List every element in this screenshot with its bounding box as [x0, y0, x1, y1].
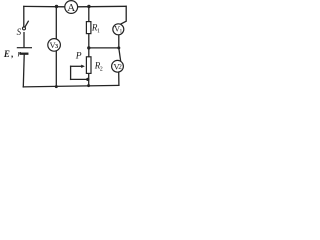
wire top rail right segment [78, 5, 126, 8]
node junction dot mid R1-R2 [87, 46, 90, 49]
svg-text:P: P [75, 51, 82, 61]
wire right branch top corner to V1 [120, 6, 126, 24]
wiper P arm horizontal [71, 65, 82, 67]
svg-text:2: 2 [100, 66, 103, 72]
wire V1 to V2 [119, 35, 121, 61]
svg-text:S: S [17, 27, 22, 37]
wire R1 to mid junction [88, 34, 90, 48]
svg-text:1: 1 [97, 28, 100, 34]
voltmeter V1 [113, 24, 124, 35]
wire battery to bottom rail [22, 55, 25, 87]
wire R2 to bottom rail [88, 73, 90, 85]
voltmeter V3 [48, 39, 61, 52]
wiper P arm vertical [70, 66, 72, 79]
svg-text:3: 3 [55, 44, 58, 50]
wire mid junction to R2 [88, 48, 90, 57]
wire mid horizontal connector [89, 47, 119, 49]
node junction dot top rail / R1 [87, 5, 90, 8]
wire V3 branch lower (voltmeter to bottom rail) [55, 51, 57, 87]
svg-text:1: 1 [120, 28, 123, 34]
wire switch to battery [23, 33, 25, 48]
switch S blade [25, 21, 28, 27]
svg-text:E: E [3, 49, 10, 59]
node junction dot wiper to R2 lead [86, 78, 89, 81]
ammeter A [65, 1, 78, 15]
svg-text:,: , [11, 49, 13, 59]
svg-text:2: 2 [118, 63, 122, 71]
battery E short plate [21, 53, 28, 55]
wire left branch upper (rail to switch) [23, 6, 25, 26]
resistor R2 (rheostat) [86, 57, 91, 74]
node junction dot bottom rail / R2 [87, 84, 90, 87]
switch S contact circle [23, 27, 26, 30]
node junction dot bottom rail / V3 [55, 85, 58, 88]
node junction dot right branch mid [117, 46, 120, 49]
resistor R1 [86, 22, 91, 34]
wire V3 branch upper (rail to voltmeter) [55, 6, 57, 39]
wire R1 branch upper (rail to R1) [88, 7, 90, 22]
wiper arrowhead [81, 65, 85, 68]
svg-text:r: r [18, 49, 22, 59]
wire V2 to bottom rail [118, 72, 120, 85]
wire top rail left segment [24, 5, 65, 7]
svg-text:A: A [67, 2, 75, 14]
battery E long plate [17, 47, 31, 49]
wire bottom rail [23, 85, 119, 87]
node junction dot top rail / V3 [55, 5, 58, 8]
wiper P arm bottom horizontal to R2 lead [71, 78, 88, 80]
voltmeter V2 [112, 60, 124, 72]
